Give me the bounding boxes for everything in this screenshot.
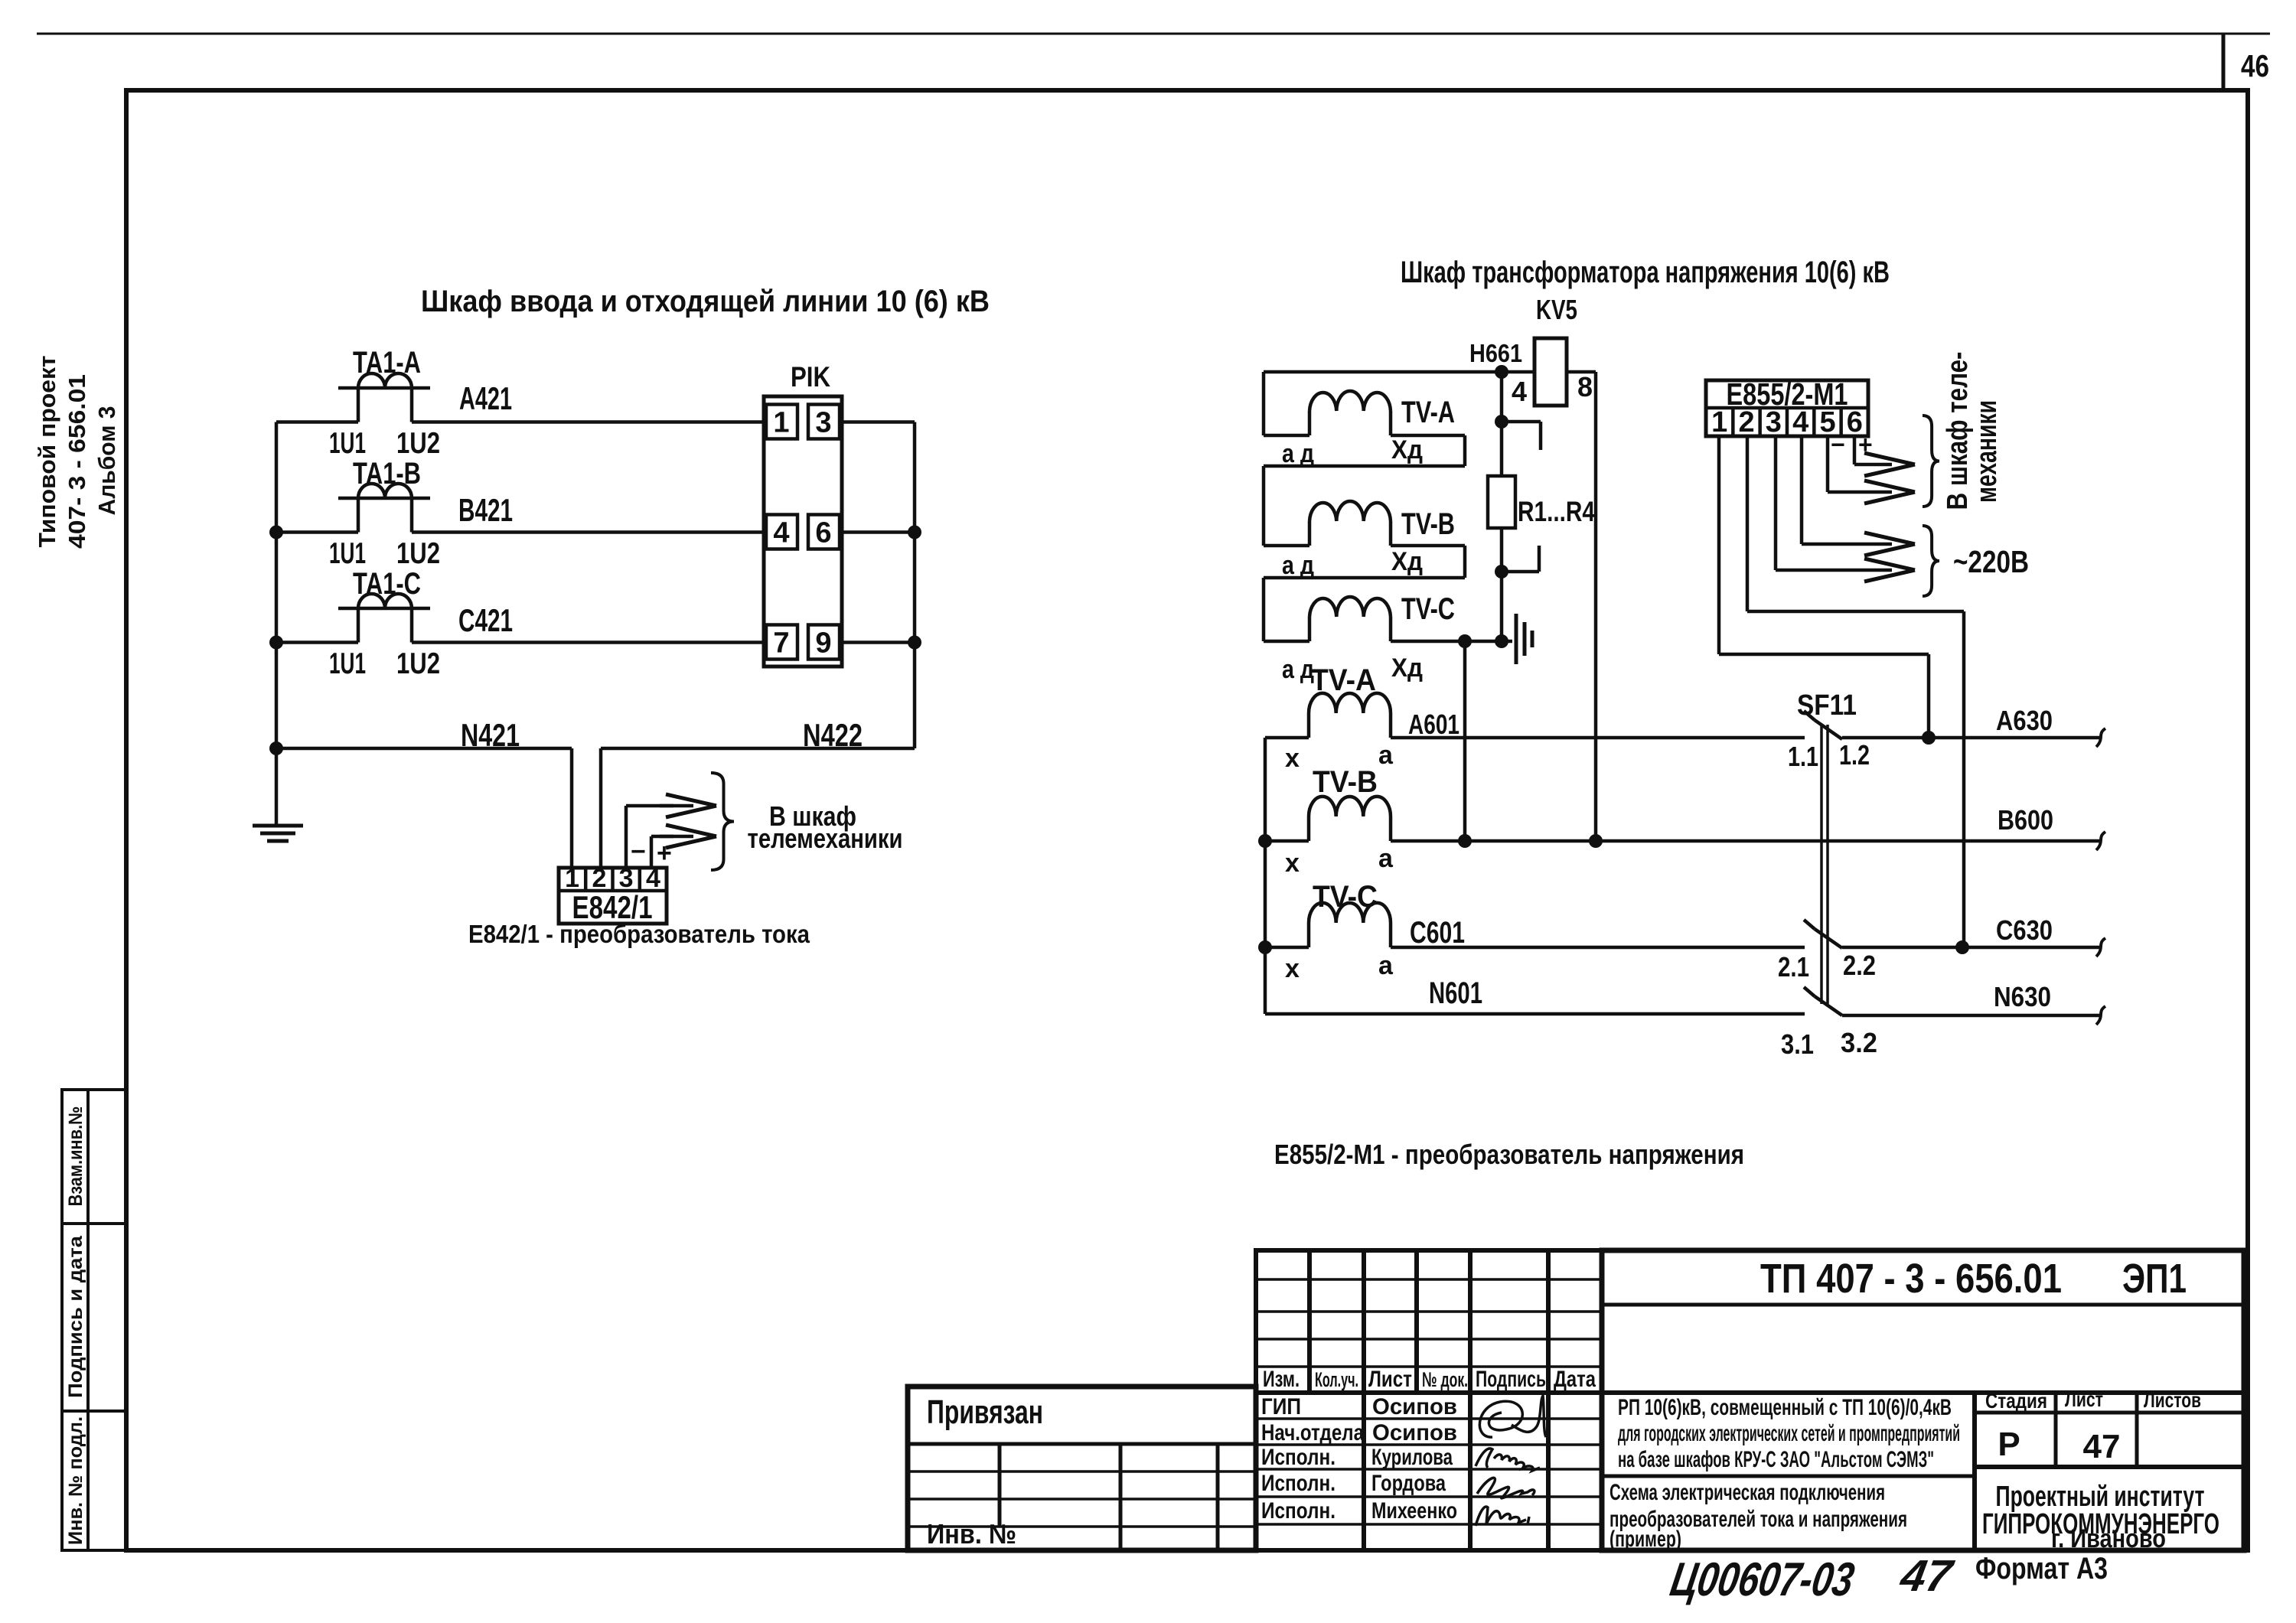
svg-text:x: x xyxy=(1285,954,1300,983)
secondary winding TV-B xyxy=(1309,797,1391,816)
stub R2 bottom xyxy=(1502,570,1539,574)
junction dot Хд row3 / drop to B600 xyxy=(1458,634,1472,648)
svg-text:−: − xyxy=(631,837,646,866)
arrow ~220V (terminal 3) xyxy=(1776,569,1892,572)
junction dot left bus / N421 xyxy=(269,741,283,755)
junction dot left bus / B row xyxy=(269,526,283,539)
svg-text:Ц00607-03: Ц00607-03 xyxy=(1667,1553,1858,1605)
wire A601 left xyxy=(1265,736,1309,740)
relay coil KV5 xyxy=(1534,338,1567,406)
aux winding TV-C xyxy=(1309,597,1391,617)
svg-text:ГИП: ГИП xyxy=(1261,1394,1301,1419)
svg-text:4: 4 xyxy=(773,517,789,549)
secondary winding TV-A xyxy=(1309,693,1391,713)
break mark N630 xyxy=(2096,1006,2105,1025)
svg-text:2.2: 2.2 xyxy=(1843,950,1876,981)
title block: main part xyxy=(1602,1250,2244,1550)
signature Михеенко xyxy=(1476,1507,1529,1526)
svg-text:Привязан: Привязан xyxy=(927,1393,1043,1431)
svg-text:x: x xyxy=(1285,849,1300,878)
secondary winding TV-C xyxy=(1309,903,1391,923)
break mark B600 xyxy=(2096,832,2105,850)
svg-text:Осипов: Осипов xyxy=(1372,1420,1457,1445)
junction dot right bus / B row xyxy=(908,526,921,539)
breaker SF11 linkage bars xyxy=(1820,725,1823,1004)
svg-text:Инв. № подл.: Инв. № подл. xyxy=(65,1416,86,1545)
svg-text:47: 47 xyxy=(1896,1551,1958,1601)
arrow to telemechanics (minus) xyxy=(1828,490,1892,494)
wire down row2 xyxy=(1463,546,1467,578)
wire E855-2 to C630 xyxy=(1962,611,1966,947)
aux winding TV-B xyxy=(1309,501,1391,521)
svg-text:47: 47 xyxy=(2083,1428,2121,1465)
svg-text:Гордова: Гордова xyxy=(1371,1471,1446,1496)
wire E855-1 down xyxy=(1717,436,1721,654)
svg-text:KV5: KV5 xyxy=(1536,294,1577,325)
svg-text:Е842/1 - преобразователь тока: Е842/1 - преобразователь тока xyxy=(468,920,810,948)
brace to telemechanics cabinet xyxy=(711,773,734,870)
wire PIK 9 to right bus xyxy=(842,640,915,644)
wire down row1 xyxy=(1463,435,1467,466)
svg-text:a: a xyxy=(1378,741,1394,770)
svg-text:Михеенко: Михеенко xyxy=(1371,1498,1457,1524)
svg-text:а д: а д xyxy=(1282,551,1314,580)
junction dot R chain bottom xyxy=(1495,634,1508,648)
arrow to telemechanics (plus) xyxy=(1854,463,1892,467)
arrow to telemechanics (plus) xyxy=(660,835,693,839)
svg-text:а д: а д xyxy=(1282,655,1314,684)
wire N421 xyxy=(276,747,572,751)
resistor R1...R4 xyxy=(1488,476,1515,528)
svg-text:Взам.инв.№: Взам.инв.№ xyxy=(65,1106,86,1207)
right vertical bus N422 xyxy=(913,422,917,749)
svg-text:Изм.: Изм. xyxy=(1263,1367,1300,1392)
junction dot left bus / C row xyxy=(269,636,283,650)
break mark C630 xyxy=(2096,938,2105,957)
svg-text:В421: В421 xyxy=(458,492,513,528)
svg-text:PIK: PIK xyxy=(791,361,830,393)
svg-text:R1...R4: R1...R4 xyxy=(1518,496,1595,527)
svg-text:Листов: Листов xyxy=(2144,1388,2201,1412)
sheet number box divider xyxy=(2222,34,2226,90)
current transformer TA1-B xyxy=(338,497,430,500)
svg-text:1U1: 1U1 xyxy=(329,427,366,460)
junction dot R stub top xyxy=(1495,415,1508,429)
svg-text:7: 7 xyxy=(773,627,789,660)
wire N422 drop to E842 terminal 2 xyxy=(599,748,603,869)
svg-text:А421: А421 xyxy=(459,380,512,416)
wire drop x2085 to B600 xyxy=(1594,372,1598,841)
aux winding TV-A xyxy=(1309,391,1391,411)
breaker SF11 pole 3 xyxy=(1804,987,1815,996)
svg-text:Н661: Н661 xyxy=(1469,339,1522,367)
wire C630 xyxy=(1842,946,2100,950)
junction dot B600 / x1914 xyxy=(1458,834,1472,848)
wire E855-6 down xyxy=(1853,436,1857,464)
svg-text:1U2: 1U2 xyxy=(396,647,440,680)
svg-text:2: 2 xyxy=(1738,406,1754,438)
svg-text:N630: N630 xyxy=(1994,981,2051,1012)
wire H661 down to resistor xyxy=(1500,372,1504,476)
svg-text:Исполн.: Исполн. xyxy=(1261,1445,1336,1470)
wire B600 xyxy=(1391,839,2100,843)
PIK terminal 1 square xyxy=(766,405,797,439)
svg-text:N422: N422 xyxy=(803,717,863,753)
wire A601 xyxy=(1391,736,1805,740)
svg-text:46: 46 xyxy=(2241,48,2269,83)
svg-text:x: x xyxy=(1285,744,1300,773)
svg-text:ТП 407 - 3 - 656.01: ТП 407 - 3 - 656.01 xyxy=(1760,1256,2062,1302)
svg-text:телемеханики: телемеханики xyxy=(748,823,903,854)
wire KV5 to right vertical xyxy=(1567,370,1596,374)
current transformer TA1-C xyxy=(338,607,430,611)
svg-text:SF11: SF11 xyxy=(1797,689,1857,722)
svg-text:TV-B: TV-B xyxy=(1313,765,1378,799)
svg-text:Подпись и дата: Подпись и дата xyxy=(65,1235,86,1398)
svg-text:механики: механики xyxy=(1971,400,2003,503)
svg-text:TV-B: TV-B xyxy=(1401,507,1455,541)
wire N421 drop to E842 terminal 1 xyxy=(570,748,574,869)
svg-text:Стадия: Стадия xyxy=(1985,1389,2047,1413)
svg-text:Курилова: Курилова xyxy=(1371,1445,1453,1470)
wire TV-B aux to right xyxy=(1391,544,1465,548)
signature Осипов xyxy=(1479,1396,1546,1437)
wire H661 top bus xyxy=(1264,370,1534,374)
svg-text:+: + xyxy=(1858,431,1873,458)
wire C601 xyxy=(1391,946,1805,950)
svg-text:а д: а д xyxy=(1282,439,1314,468)
svg-text:TV-C: TV-C xyxy=(1313,880,1378,914)
wire E855-3 down xyxy=(1774,436,1778,570)
wire E855-5 down xyxy=(1826,436,1830,492)
svg-text:N421: N421 xyxy=(461,717,520,753)
wire to TV-B aux xyxy=(1264,544,1309,548)
svg-text:4: 4 xyxy=(1512,376,1527,407)
converter block E842/1 xyxy=(559,868,667,924)
svg-text:ТА1-В: ТА1-В xyxy=(353,457,421,490)
svg-text:Инв. №: Инв. № xyxy=(927,1518,1016,1550)
svg-text:ТА1-А: ТА1-А xyxy=(353,346,421,380)
svg-text:TV-C: TV-C xyxy=(1401,592,1455,626)
PIK terminal 9 square xyxy=(808,625,840,660)
svg-text:В600: В600 xyxy=(1998,804,2053,836)
svg-text:Исполн.: Исполн. xyxy=(1261,1471,1336,1496)
wire left drop row1 xyxy=(1262,372,1266,435)
svg-text:407- 3 - 656.01: 407- 3 - 656.01 xyxy=(64,374,90,549)
signature Гордова xyxy=(1477,1478,1534,1498)
svg-text:TV-A: TV-A xyxy=(1401,396,1455,429)
arrow ~220V (terminal 4) xyxy=(1802,543,1892,546)
PIK terminal 3 square xyxy=(808,405,840,439)
brace ~220V xyxy=(1923,526,1939,596)
svg-text:для городских электрических се: для городских электрических сетей и пром… xyxy=(1618,1421,1960,1446)
wire B600 left xyxy=(1265,839,1309,843)
svg-text:6: 6 xyxy=(815,517,831,549)
PIK terminal 6 square xyxy=(808,515,840,549)
svg-text:3: 3 xyxy=(815,407,831,439)
arrow to telemechanics (minus) xyxy=(660,804,693,808)
wire B421 to PIK xyxy=(412,530,764,534)
junction dot A630 / E855-1 xyxy=(1922,731,1936,745)
svg-text:8: 8 xyxy=(1577,371,1593,402)
wire B421 left segment xyxy=(276,530,358,534)
svg-text:1.1: 1.1 xyxy=(1788,741,1818,772)
svg-text:Дата: Дата xyxy=(1554,1367,1596,1392)
svg-text:~220В: ~220В xyxy=(1953,544,2029,579)
svg-text:С421: С421 xyxy=(458,602,513,638)
wire PIK 3 to right bus xyxy=(842,420,915,424)
svg-text:9: 9 xyxy=(815,627,831,660)
wire N422 xyxy=(601,747,915,751)
svg-text:Схема электрическая подключени: Схема электрическая подключения xyxy=(1609,1480,1885,1505)
wire left drop row2 xyxy=(1262,466,1266,546)
svg-text:Хд: Хд xyxy=(1391,435,1423,464)
svg-text:3: 3 xyxy=(1766,406,1782,438)
junction dot R stub bottom xyxy=(1495,565,1508,578)
svg-text:С630: С630 xyxy=(1996,914,2053,946)
svg-text:Исполн.: Исполн. xyxy=(1261,1498,1336,1524)
breaker SF11 pole 1 xyxy=(1804,711,1815,720)
brace telemechanics (right) xyxy=(1923,416,1939,507)
ground symbol (left circuit) xyxy=(253,824,303,828)
svg-text:А601: А601 xyxy=(1408,709,1459,740)
wire left drop row3 xyxy=(1262,578,1266,641)
PIK terminal 4 square xyxy=(766,515,797,549)
wire C601 left xyxy=(1265,946,1309,950)
wire to TV-C aux xyxy=(1264,640,1309,644)
svg-text:Формат А3: Формат А3 xyxy=(1975,1552,2108,1586)
svg-text:Нач.отдела: Нач.отдела xyxy=(1261,1420,1364,1445)
svg-text:3.1: 3.1 xyxy=(1781,1028,1814,1060)
wire E842 terminal 3 up (minus) xyxy=(625,806,628,868)
wire TV-A aux to right xyxy=(1391,434,1465,438)
wire N601 xyxy=(1265,1012,1805,1016)
junction dot right bus / C row xyxy=(908,636,921,650)
junction dot H661 xyxy=(1495,365,1508,379)
page top thin rule xyxy=(37,33,2270,35)
wire resistor to ground line xyxy=(1500,528,1504,641)
svg-text:(пример): (пример) xyxy=(1609,1527,1681,1552)
svg-text:a: a xyxy=(1378,951,1394,980)
signature Курилова xyxy=(1476,1449,1540,1471)
svg-text:4: 4 xyxy=(1792,406,1808,438)
junction dot B600 / x2085 xyxy=(1589,834,1603,848)
svg-text:Осипов: Осипов xyxy=(1372,1394,1457,1419)
wire drop x1914 to B600 xyxy=(1463,641,1467,841)
svg-text:Шкаф ввода и отходящей линии 1: Шкаф ввода и отходящей линии 10 (6) кВ xyxy=(421,285,990,318)
PIK box xyxy=(764,396,842,666)
svg-text:Шкаф трансформатора напряжения: Шкаф трансформатора напряжения 10(6) кВ xyxy=(1401,256,1890,289)
ground symbol (right circuit, rotated) xyxy=(1515,614,1518,664)
svg-text:С601: С601 xyxy=(1410,916,1465,950)
svg-text:2.1: 2.1 xyxy=(1778,951,1809,983)
wire A421 left segment xyxy=(276,420,358,424)
svg-text:1U1: 1U1 xyxy=(329,647,366,680)
wire A630 xyxy=(1842,736,2100,740)
left vertical bus N xyxy=(275,422,279,826)
wire E855-4 down xyxy=(1800,436,1804,544)
wire E842 terminal 4 up (plus) xyxy=(650,836,654,868)
left margin stamp boxes xyxy=(62,1090,126,1550)
title block: revision table xyxy=(1256,1250,1602,1550)
svg-text:Альбом 3: Альбом 3 xyxy=(93,406,120,516)
svg-text:a: a xyxy=(1378,844,1394,873)
junction dot left bus / C601 xyxy=(1258,940,1272,954)
stub R2 top xyxy=(1502,420,1541,424)
svg-text:1.2: 1.2 xyxy=(1839,739,1870,771)
wire C421 left segment xyxy=(276,640,358,644)
svg-text:Е855/2-М1 - преобразователь на: Е855/2-М1 - преобразователь напряжения xyxy=(1274,1139,1744,1170)
wire C421 to PIK xyxy=(412,640,764,644)
wire return row2 xyxy=(1264,576,1465,580)
junction dot left bus / B600 xyxy=(1258,834,1272,848)
wire to TV-A aux xyxy=(1264,434,1309,438)
wire N630 xyxy=(1842,1014,2100,1018)
svg-text:1U1: 1U1 xyxy=(329,537,366,570)
svg-text:г. Иваново: г. Иваново xyxy=(2051,1524,2166,1553)
svg-text:+: + xyxy=(657,839,672,868)
svg-text:А630: А630 xyxy=(1996,705,2053,736)
svg-text:Хд: Хд xyxy=(1391,653,1423,683)
svg-text:ТА1-С: ТА1-С xyxy=(353,567,421,601)
svg-text:РП 10(6)кВ, совмещенный с ТП 1: РП 10(6)кВ, совмещенный с ТП 10(6)/0,4кВ xyxy=(1618,1395,1952,1420)
wire PIK 6 to right bus xyxy=(842,530,915,534)
svg-text:В шкаф теле-: В шкаф теле- xyxy=(1942,352,1974,510)
break mark A630 xyxy=(2096,728,2105,747)
junction dot C630 / E855-2 xyxy=(1955,940,1969,954)
current transformer TA1-A xyxy=(338,386,430,390)
title block: left attachment box xyxy=(908,1387,1256,1550)
wire TV-C aux to ground xyxy=(1391,640,1512,644)
wire return row1 xyxy=(1264,464,1465,468)
svg-text:1U2: 1U2 xyxy=(396,427,440,460)
svg-text:№ док.: № док. xyxy=(1422,1368,1468,1391)
svg-text:1: 1 xyxy=(1711,406,1727,438)
svg-text:ЭП1: ЭП1 xyxy=(2122,1256,2187,1302)
svg-text:Р: Р xyxy=(1998,1426,2020,1463)
PIK terminal 7 square xyxy=(766,625,797,660)
breaker SF11 pole 2 xyxy=(1804,920,1815,929)
wire A421 to PIK xyxy=(412,420,764,424)
svg-text:TV-A: TV-A xyxy=(1311,663,1376,697)
wire E855-1 to A630 xyxy=(1927,654,1931,738)
wire E855-2 down xyxy=(1746,436,1750,611)
svg-text:Лист: Лист xyxy=(2065,1387,2103,1411)
svg-text:Типовой проект: Типовой проект xyxy=(34,356,60,548)
svg-text:Подпись: Подпись xyxy=(1476,1367,1546,1392)
left vertical bus secondary xyxy=(1264,738,1267,1014)
svg-text:1U2: 1U2 xyxy=(396,537,440,570)
svg-text:на базе шкафов КРУ-С ЗАО "Альс: на базе шкафов КРУ-С ЗАО "Альстом СЭМЗ" xyxy=(1618,1447,1934,1472)
svg-text:Кол.уч.: Кол.уч. xyxy=(1315,1368,1358,1391)
svg-text:3.2: 3.2 xyxy=(1841,1027,1877,1058)
converter block E855/2-M1 xyxy=(1706,380,1868,436)
svg-text:Хд: Хд xyxy=(1391,547,1423,576)
svg-text:Лист: Лист xyxy=(1368,1367,1412,1392)
svg-text:−: − xyxy=(1831,431,1845,458)
svg-text:1: 1 xyxy=(773,407,789,439)
svg-text:N601: N601 xyxy=(1429,976,1482,1010)
